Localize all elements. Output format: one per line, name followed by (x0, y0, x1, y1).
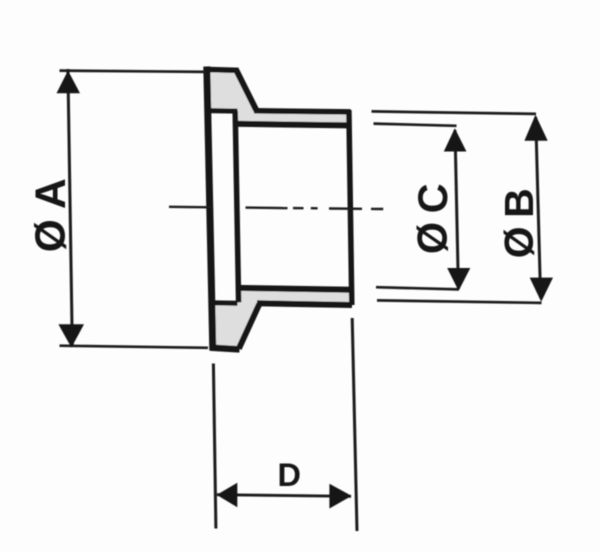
bore bottom edge (236, 288, 351, 290)
dim C top arrowhead (444, 128, 467, 151)
dim A top extension line (60, 71, 207, 72)
dim D right extension line (352, 318, 357, 531)
dim B top extension line (372, 111, 537, 114)
dim B top arrowhead (524, 115, 547, 141)
svg-text:Ø B: Ø B (496, 190, 542, 258)
ferrule lower wall fill (210, 288, 351, 348)
centerline dash 4 (329, 207, 362, 210)
dim D left extension line (213, 364, 216, 529)
svg-text:D: D (277, 457, 300, 493)
socket shoulder vertical (235, 111, 238, 302)
centerline dot (311, 207, 318, 210)
dim C bottom arrowhead (447, 268, 470, 291)
centerline dash 5 (371, 208, 383, 211)
flange top edge (204, 69, 239, 70)
flange bottom edge (210, 348, 239, 350)
svg-text:Ø C: Ø C (409, 184, 456, 254)
dim B bottom arrowhead (530, 278, 553, 302)
dim A bottom arrowhead (58, 324, 84, 347)
dim C bottom extension line (376, 287, 459, 289)
socket top edge (206, 108, 238, 114)
dim A bottom extension line (60, 346, 209, 348)
centerline dash 1 (169, 206, 211, 209)
dim B line (536, 117, 541, 298)
dim C line (455, 130, 458, 289)
centerline dash 3 (293, 207, 304, 209)
ferrule upper wall fill (206, 69, 350, 125)
dim D right arrowhead (329, 484, 351, 509)
bore top edge (235, 124, 350, 126)
dim A line (68, 69, 72, 346)
cylinder top edge (254, 111, 351, 112)
svg-text:Ø A: Ø A (28, 178, 75, 252)
socket bottom edge (209, 300, 238, 306)
cylinder right face (349, 110, 352, 305)
cylinder bottom edge (257, 303, 352, 305)
top taper diagonal (236, 70, 256, 111)
dim B bottom extension line (377, 300, 542, 303)
dim D line (217, 495, 351, 497)
dim D left arrowhead (217, 483, 238, 508)
flange front face (207, 67, 213, 351)
centerline dash 2 (246, 206, 288, 209)
dim C top extension line (374, 124, 457, 126)
bottom taper diagonal (239, 304, 259, 349)
dim A top arrowhead (57, 71, 81, 94)
